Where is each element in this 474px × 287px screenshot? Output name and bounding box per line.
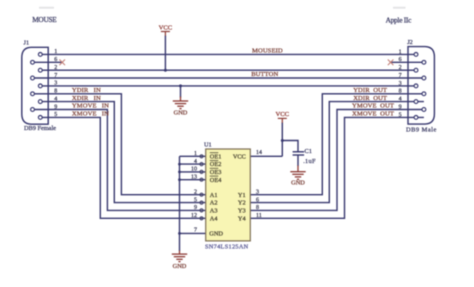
- svg-text:5: 5: [399, 112, 402, 118]
- svg-text:GND: GND: [291, 179, 305, 186]
- svg-text:8: 8: [54, 89, 57, 95]
- svg-text:YDIR IN: YDIR IN: [72, 87, 101, 94]
- svg-text:OE4: OE4: [210, 177, 222, 184]
- svg-text:SN74LS125AN: SN74LS125AN: [205, 244, 249, 251]
- svg-text:1: 1: [399, 49, 402, 55]
- svg-text:9: 9: [54, 104, 57, 110]
- svg-text:C1: C1: [305, 148, 312, 155]
- svg-text:DB9 Male: DB9 Male: [406, 127, 437, 134]
- svg-text:MOUSEID: MOUSEID: [252, 48, 283, 55]
- svg-text:6: 6: [256, 197, 259, 203]
- svg-text:1: 1: [54, 49, 57, 55]
- svg-text:6: 6: [399, 57, 402, 63]
- svg-text:GND: GND: [209, 231, 223, 238]
- svg-text:12: 12: [191, 213, 197, 219]
- svg-text:2: 2: [399, 65, 402, 71]
- svg-text:VCC: VCC: [276, 111, 290, 118]
- svg-text:VCC: VCC: [159, 24, 173, 31]
- svg-text:13: 13: [191, 174, 197, 180]
- svg-text:XDIR IN: XDIR IN: [72, 95, 101, 102]
- svg-text:GND: GND: [174, 109, 188, 116]
- svg-text:11: 11: [256, 213, 262, 219]
- svg-text:Y2: Y2: [238, 200, 246, 207]
- svg-text:8: 8: [256, 205, 259, 211]
- svg-text:4: 4: [399, 97, 402, 103]
- svg-text:5: 5: [194, 197, 197, 203]
- svg-text:7: 7: [194, 228, 197, 234]
- svg-text:8: 8: [399, 89, 402, 95]
- svg-text:MOUSE: MOUSE: [32, 15, 57, 24]
- svg-text:U1: U1: [204, 141, 212, 148]
- svg-text:J1: J1: [24, 39, 30, 46]
- svg-text:YDIR OUT: YDIR OUT: [353, 87, 387, 94]
- svg-text:XMOVE IN: XMOVE IN: [72, 111, 109, 118]
- svg-text:YMOVE OUT: YMOVE OUT: [352, 103, 394, 110]
- svg-text:A4: A4: [210, 215, 219, 222]
- svg-text:VCC: VCC: [233, 153, 246, 160]
- svg-text:Apple IIc: Apple IIc: [386, 15, 413, 24]
- svg-text:4: 4: [194, 159, 197, 165]
- svg-text:4: 4: [54, 96, 57, 102]
- svg-text:9: 9: [399, 104, 402, 110]
- svg-text:9: 9: [194, 205, 197, 211]
- svg-text:.1uF: .1uF: [303, 158, 316, 165]
- svg-text:1: 1: [194, 151, 197, 157]
- svg-text:YMOVE IN: YMOVE IN: [72, 103, 109, 110]
- svg-text:7: 7: [399, 73, 402, 79]
- svg-text:14: 14: [256, 150, 262, 156]
- svg-text:GND: GND: [173, 263, 187, 270]
- svg-text:XMOVE OUT: XMOVE OUT: [352, 111, 394, 118]
- svg-text:OE2: OE2: [210, 161, 222, 168]
- svg-text:6: 6: [54, 57, 57, 63]
- svg-text:DB9 Female: DB9 Female: [24, 125, 56, 132]
- svg-text:10: 10: [191, 167, 197, 173]
- svg-text:XDIR OUT: XDIR OUT: [353, 95, 387, 102]
- svg-text:A3: A3: [210, 208, 218, 215]
- svg-text:OE3: OE3: [210, 169, 222, 176]
- svg-text:3: 3: [399, 81, 402, 87]
- svg-text:OE1: OE1: [210, 153, 222, 160]
- svg-text:7: 7: [54, 73, 57, 79]
- svg-text:Y1: Y1: [238, 192, 246, 199]
- svg-text:3: 3: [256, 189, 259, 195]
- svg-text:2: 2: [54, 65, 57, 71]
- svg-text:A2: A2: [210, 200, 218, 207]
- svg-text:Y3: Y3: [238, 208, 246, 215]
- svg-text:2: 2: [194, 189, 197, 195]
- svg-text:5: 5: [54, 112, 57, 118]
- svg-text:Y4: Y4: [238, 215, 247, 222]
- svg-text:A1: A1: [210, 192, 218, 199]
- svg-text:J2: J2: [407, 39, 413, 46]
- svg-text:3: 3: [54, 81, 57, 87]
- svg-text:BUTTON: BUTTON: [251, 71, 278, 78]
